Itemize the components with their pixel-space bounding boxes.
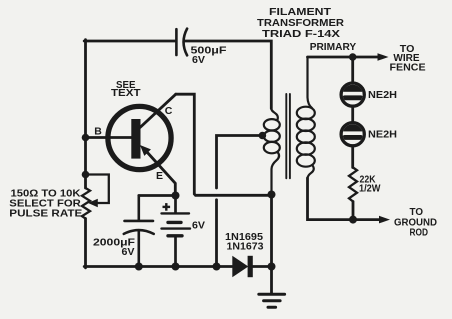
svg-text:PRIMARY: PRIMARY [310,41,357,53]
svg-text:1N1673: 1N1673 [227,241,264,253]
svg-text:FENCE: FENCE [390,61,426,73]
node base tap [82,134,90,142]
svg-text:NE2H: NE2H [368,129,397,141]
wire left vertical upper [84,40,87,188]
node emitter/battery [172,192,180,200]
svg-text:PULSE RATE: PULSE RATE [9,207,82,219]
node winding tap [259,132,267,140]
svg-text:6V: 6V [122,246,135,258]
node ground rod [349,216,357,224]
resistor R2 22K zigzag [349,168,357,202]
battery plus sign [163,203,171,211]
wire between lamps [351,107,354,122]
wire emitter node to C2 [139,194,176,197]
wire lamp2 to R2 [351,147,354,168]
node C2 bottom [135,263,143,271]
svg-text:ROD: ROD [410,227,429,239]
potentiometer R1 wiper loop [86,175,109,204]
label transformer [257,6,344,40]
capacitor C1 500uF plates [176,29,187,56]
arrow to wire fence [378,53,389,61]
svg-text:6V: 6V [192,54,205,66]
label C2 value [93,237,136,258]
wire base lead [86,136,133,139]
svg-text:TRIAD F-14X: TRIAD F-14X [262,28,340,40]
wire ground lead [270,267,273,295]
label TO WIRE FENCE [390,43,426,73]
node wiper tie [82,171,90,179]
wire diode cathode up to transformer [270,195,273,267]
node battery bottom [172,263,180,271]
wire R2 bottom [352,202,355,220]
label R1 value [9,187,82,219]
wire top horizontal right of C1 to transformer [185,41,272,109]
wire collector horizontal and down [176,94,272,195]
svg-text:B: B [94,126,102,138]
ground [259,294,285,307]
neon lamp NE2H #1 [341,83,364,106]
label R2 value [359,174,381,195]
svg-text:TEXT: TEXT [111,87,141,99]
transformer T1 right winding [297,57,315,179]
svg-text:NE2H: NE2H [368,89,397,101]
svg-text:1/2W: 1/2W [359,183,381,195]
wire top horizontal left of C1 [84,40,175,43]
battery B1 [162,196,191,267]
wire tap horizontal and vertical with crossing gap [217,136,263,189]
wire left vertical lower [84,219,87,268]
diode D1 [217,256,272,277]
label SEE TEXT [111,79,141,99]
transistor Q1 [108,94,176,195]
capacitor C2 2000uF [124,196,154,267]
transformer T1 left winding [264,108,280,194]
svg-text:6V: 6V [192,220,205,232]
potentiometer R1 wiper arrow [89,200,97,207]
wire to lamp 1 [351,57,354,82]
node diode cathode [268,263,276,271]
node diode anode [213,263,221,271]
svg-text:E: E [156,170,163,182]
arrow to ground rod [379,216,390,224]
label C1 value [191,45,228,66]
node winding bottom [268,191,276,199]
transformer T1 core [286,94,290,178]
node primary top [349,53,357,61]
wire secondary bottom to ground rod arrow [308,178,380,220]
potentiometer R1 zigzag [82,188,90,219]
wire primary top to fence arrow [308,56,379,59]
label TO GROUND ROD [394,206,437,239]
wire bottom bus [84,265,216,268]
label D1 [225,231,264,253]
neon lamp NE2H #2 [341,123,364,146]
svg-text:C: C [165,105,173,117]
